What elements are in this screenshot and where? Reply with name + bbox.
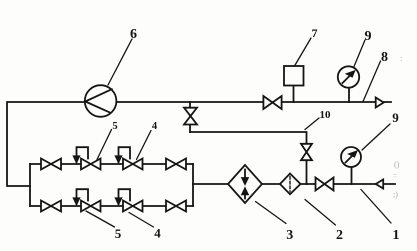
leader 6 <box>108 39 132 85</box>
leader 4 bottom <box>129 213 154 228</box>
svg-text:5: 5 <box>115 226 122 241</box>
svg-text:3: 3 <box>286 228 293 243</box>
svg-text:10: 10 <box>320 109 332 121</box>
leader 2 <box>305 200 336 226</box>
solenoid valve 5 bottom bracket <box>73 189 88 205</box>
leader 9 bottom <box>362 124 390 150</box>
wire stem of top gauge 9 <box>348 88 350 102</box>
leader 4 top <box>137 131 152 160</box>
leader 5 top <box>97 130 112 160</box>
svg-text:;): ;) <box>393 190 398 199</box>
svg-text:9: 9 <box>392 110 399 125</box>
svg-text:8: 8 <box>381 50 388 65</box>
wire stem of bottom gauge 9 <box>351 167 353 184</box>
wire ladder top branch <box>30 163 193 165</box>
svg-text:4: 4 <box>152 121 158 132</box>
wire ladder bottom branch <box>30 205 193 207</box>
svg-text::: : <box>400 54 402 63</box>
wire ladder left vertical <box>29 164 31 206</box>
cooler 3 diamond <box>228 165 262 203</box>
svg-text:9: 9 <box>365 29 372 44</box>
solenoid valve 4 bottom bowtie <box>123 201 143 212</box>
svg-text:1: 1 <box>393 228 400 243</box>
valve ladder top-right bowtie <box>166 159 186 170</box>
svg-text:7: 7 <box>312 26 318 40</box>
wire line 10 <box>190 132 307 184</box>
svg-text:4: 4 <box>154 226 161 241</box>
filter 2 diamond <box>280 174 301 195</box>
solenoid valve 5 top bowtie <box>81 159 101 170</box>
inlet arrow 1 (open, left) <box>376 180 383 189</box>
svg-text:2: 2 <box>336 228 343 243</box>
pressure box 7 <box>284 66 304 86</box>
gauge 9 top <box>338 66 359 87</box>
solenoid valve 4 top bowtie <box>123 159 143 170</box>
outlet arrow 8 (open, right) <box>376 98 384 108</box>
pump U6 circle <box>85 85 117 117</box>
svg-text:5: 5 <box>112 121 117 132</box>
leader 8 <box>363 61 381 102</box>
solenoid valve 5 bottom bowtie <box>81 201 101 212</box>
gauge 9 bottom <box>341 147 361 167</box>
leader 10 <box>305 118 319 130</box>
wire stem of box 7 <box>293 86 295 103</box>
scan specks (faint) <box>393 54 402 199</box>
wire branch vertical at x=190 <box>189 102 191 132</box>
svg-text:6: 6 <box>130 27 137 42</box>
svg-text:=: = <box>393 172 397 180</box>
valve V-top-main (bowtie on main line) <box>263 96 281 109</box>
valve ladder top-left bowtie <box>41 159 61 170</box>
wire main top line with left loop <box>7 102 391 186</box>
solenoid valve 5 top bracket <box>73 147 88 163</box>
valve vertical bowtie on branch x=190 <box>184 108 197 125</box>
svg-text:(): () <box>394 160 400 169</box>
valve ladder bottom-left bowtie <box>41 201 61 212</box>
valve bottom-right bowtie <box>316 178 334 191</box>
wire ladder right vertical <box>192 164 194 206</box>
valve ladder bottom-right bowtie <box>166 201 186 212</box>
solenoid valve 4 top bracket <box>115 147 130 163</box>
valve 10 vertical bowtie <box>301 144 312 160</box>
leader 9 top <box>354 40 365 67</box>
solenoid valve 4 bottom bracket <box>115 189 130 205</box>
wire bottom main line <box>193 183 395 185</box>
leader 5 bottom <box>86 211 115 227</box>
leader 7 <box>295 38 312 66</box>
leader 1 <box>361 190 391 224</box>
leader 3 <box>256 202 287 224</box>
